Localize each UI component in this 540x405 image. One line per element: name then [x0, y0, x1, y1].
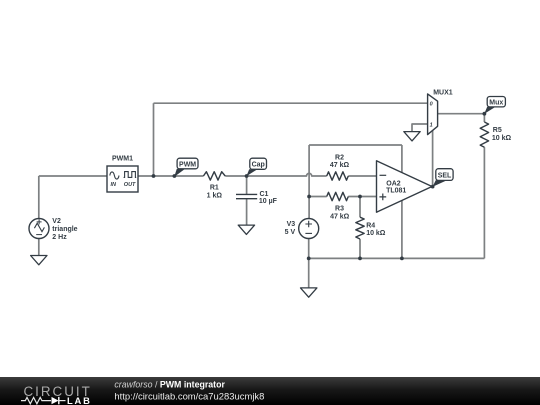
source V2 circle	[29, 219, 49, 239]
wire V3 plus vertical	[308, 145, 310, 219]
flag Cap box	[250, 158, 267, 169]
PWM1 square wave icon	[124, 172, 137, 178]
svg-text:C1: C1	[260, 191, 269, 198]
multiplexer MUX1 body	[428, 94, 438, 135]
svg-text:crawforso / PWM integrator: crawforso / PWM integrator	[114, 380, 225, 390]
resistor R3	[327, 192, 349, 200]
wire R5 bottom to rail	[483, 147, 485, 258]
svg-text:TL081: TL081	[386, 188, 406, 195]
ground under V3	[301, 288, 317, 297]
svg-text:R1: R1	[210, 184, 219, 191]
svg-text:Cap: Cap	[252, 162, 265, 169]
svg-text:47 kΩ: 47 kΩ	[330, 213, 350, 220]
wire top rail to MUX input 0	[154, 102, 428, 104]
capacitor C1 plates	[236, 194, 257, 198]
junction node SEL / op-amp output	[431, 185, 435, 189]
svg-text:10 kΩ: 10 kΩ	[492, 135, 512, 142]
svg-text:10 µF: 10 µF	[259, 198, 278, 205]
wire MUX select vertical	[432, 131, 434, 187]
wire top power rail	[309, 144, 402, 146]
svg-text:OA2: OA2	[386, 181, 401, 188]
svg-text:Mux: Mux	[489, 99, 503, 106]
V2 triangle wave icon	[34, 223, 44, 231]
wire V2 to PWM1	[39, 175, 107, 177]
wire V2 ground stem	[38, 239, 40, 256]
svg-text:R5: R5	[493, 127, 502, 134]
svg-text:triangle: triangle	[52, 226, 77, 233]
junction node V3 bottom rail	[307, 257, 311, 261]
junction node R4 bottom rail	[358, 257, 362, 261]
flag PWM pointer	[174, 169, 185, 177]
svg-text:10 kΩ: 10 kΩ	[366, 230, 386, 237]
flag Mux pointer	[484, 107, 495, 114]
svg-text:MUX1: MUX1	[433, 89, 453, 96]
wire R4 top lead	[359, 197, 361, 218]
svg-text:0: 0	[430, 102, 433, 108]
junction node R4 top	[358, 195, 362, 199]
wire MUX input 1 to ground	[412, 124, 428, 132]
op-amp plus input symbol	[379, 194, 386, 201]
wire R2 to op-amp minus input	[348, 175, 376, 177]
footer bar	[0, 377, 540, 405]
resistor R5	[480, 122, 488, 147]
V2 minus sign	[36, 234, 42, 236]
source V3 circle	[299, 219, 319, 239]
wire R1 to Cap node to R2 with hop	[225, 173, 327, 176]
resistor R2	[327, 172, 349, 180]
op-amp minus input symbol	[380, 174, 387, 176]
wire MUX output	[438, 113, 485, 115]
wire C1 bottom lead	[246, 199, 248, 225]
logo resistor squiggle	[21, 397, 51, 403]
svg-text:2 Hz: 2 Hz	[52, 234, 67, 241]
junction node R3 left	[307, 195, 311, 199]
wire PWM1 out to R1	[138, 175, 203, 177]
resistor R1	[203, 172, 225, 180]
svg-text:LAB: LAB	[67, 395, 92, 405]
svg-text:http://circuitlab.com/ca7u283u: http://circuitlab.com/ca7u283ucmjk8	[114, 391, 264, 401]
junction node at PWM1 output	[152, 174, 156, 178]
svg-text:SEL: SEL	[438, 172, 452, 179]
flag SEL box	[436, 169, 453, 181]
wire R3 row	[309, 196, 327, 198]
svg-text:R4: R4	[366, 223, 375, 230]
junction node Cap	[245, 174, 249, 178]
resistor R4	[356, 217, 364, 239]
V3 plus sign	[305, 221, 312, 228]
junction node op-amp Vminus rail	[400, 257, 404, 261]
wire V3 ground stem	[308, 258, 310, 288]
svg-text:47 kΩ: 47 kΩ	[330, 162, 350, 169]
ground under V2	[31, 256, 47, 265]
PWM source PWM1 box	[107, 166, 138, 192]
wire node to top rail vertical	[153, 103, 155, 176]
svg-text:V2: V2	[52, 218, 61, 225]
flag SEL pointer	[433, 180, 447, 187]
svg-text:1: 1	[430, 122, 433, 128]
svg-text:R3: R3	[335, 205, 344, 212]
junction node PWM flag	[173, 174, 177, 178]
svg-text:1 kΩ: 1 kΩ	[207, 193, 223, 200]
flag PWM box	[177, 158, 198, 169]
wire R4 bottom lead	[359, 239, 361, 258]
wire V2 top vertical	[38, 176, 40, 219]
flag Cap pointer	[246, 169, 257, 176]
op-amp OA2 triangle	[377, 161, 433, 212]
logo diode	[52, 397, 59, 404]
svg-text:5 V: 5 V	[285, 229, 296, 236]
wire R3 to op-amp plus input	[348, 196, 376, 198]
wire R5 top lead	[483, 114, 485, 122]
junction node Mux output	[483, 112, 487, 116]
svg-text:R2: R2	[335, 154, 344, 161]
V3 minus sign	[305, 232, 312, 234]
wire C1 top lead	[246, 176, 248, 194]
wire bottom rail	[309, 257, 485, 259]
svg-text:PWM1: PWM1	[112, 155, 133, 162]
PWM1 sine icon	[110, 172, 119, 179]
wire V3 bottom	[308, 239, 310, 259]
V2 plus sign	[37, 219, 42, 224]
svg-text:V3: V3	[287, 221, 296, 228]
ground under C1	[238, 225, 254, 234]
ground at MUX input 1	[404, 132, 420, 141]
wire op-amp supply vertical	[401, 145, 403, 258]
flag Mux box	[487, 97, 505, 107]
svg-text:PWM: PWM	[179, 161, 196, 168]
svg-text:OUT: OUT	[124, 182, 136, 188]
